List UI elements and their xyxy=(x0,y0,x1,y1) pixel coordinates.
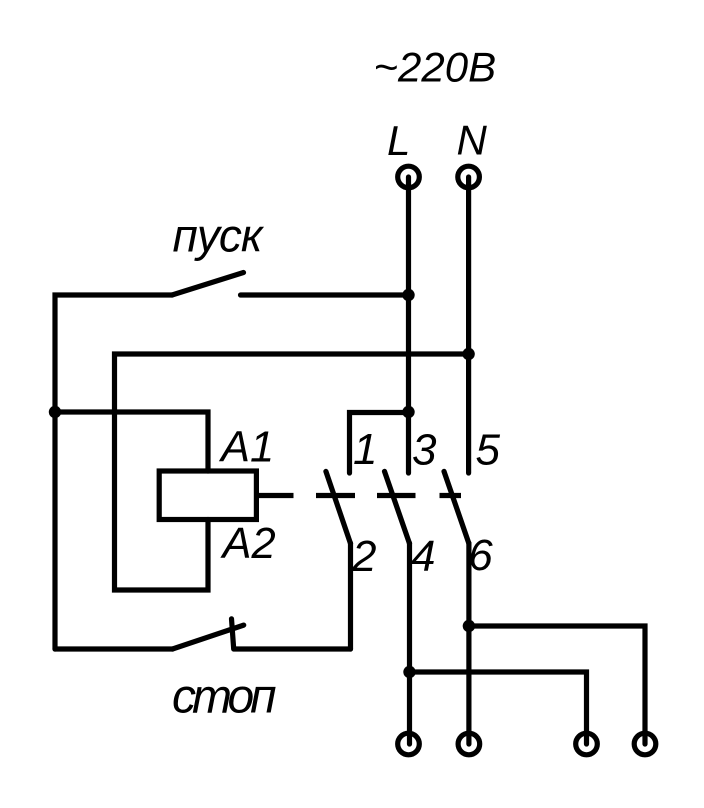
svg-text:4: 4 xyxy=(411,532,435,581)
wire pole6 bottom to terminal xyxy=(466,543,471,744)
svg-text:3: 3 xyxy=(412,426,437,475)
svg-text:A2: A2 xyxy=(220,520,276,568)
junction dot L-pusk xyxy=(402,289,414,301)
svg-text:6: 6 xyxy=(468,531,493,580)
wire branch to terminal 3 xyxy=(410,672,587,744)
svg-text:A1: A1 xyxy=(218,424,274,472)
terminal N xyxy=(458,166,480,188)
contact pole 3-4 blade xyxy=(385,471,410,543)
svg-text:стоп: стоп xyxy=(172,671,276,724)
push-button пуск blade xyxy=(172,273,244,296)
wire branch to terminal 4 xyxy=(469,626,645,744)
junction dot L line xyxy=(402,406,414,418)
wire pole2 bottom to stop xyxy=(348,543,353,649)
wire N vertical xyxy=(466,177,471,473)
contact pole 5-6 blade xyxy=(444,471,469,543)
output terminal 2 xyxy=(458,733,480,755)
wire N branch horizontal xyxy=(115,354,469,590)
contact pole 1-2 blade xyxy=(326,471,351,543)
output terminal 4 xyxy=(634,733,656,755)
push-button стоп contact tick xyxy=(232,619,234,649)
push-button стоп left wire xyxy=(55,646,173,651)
push-button пуск left wire xyxy=(55,295,172,649)
svg-text:1: 1 xyxy=(353,425,377,474)
svg-text:2: 2 xyxy=(351,532,376,581)
junction dot N branch xyxy=(462,348,474,360)
svg-text:N: N xyxy=(457,117,488,164)
push-button стоп right wire xyxy=(235,646,351,651)
svg-text:5: 5 xyxy=(476,426,501,475)
wire L vertical xyxy=(406,177,411,473)
junction dot pole4 xyxy=(403,666,415,678)
junction dot left vertical xyxy=(49,406,61,418)
output terminal 3 xyxy=(576,733,598,755)
svg-text:~220В: ~220В xyxy=(374,44,497,91)
junction dot pole6 xyxy=(463,620,475,632)
output terminal 1 xyxy=(398,733,420,755)
terminal L xyxy=(398,166,420,188)
svg-text:пуск: пуск xyxy=(173,210,265,262)
coil KM1 rectangle xyxy=(159,471,256,520)
mechanical link dashed line xyxy=(256,493,461,498)
push-button стоп blade xyxy=(173,625,244,649)
svg-text:L: L xyxy=(387,117,410,164)
wire coil A1 branch xyxy=(55,412,208,471)
wire pole1 top branch xyxy=(350,413,409,474)
wire pole4 bottom to terminal xyxy=(407,543,412,744)
push-button пуск right wire xyxy=(241,292,409,297)
